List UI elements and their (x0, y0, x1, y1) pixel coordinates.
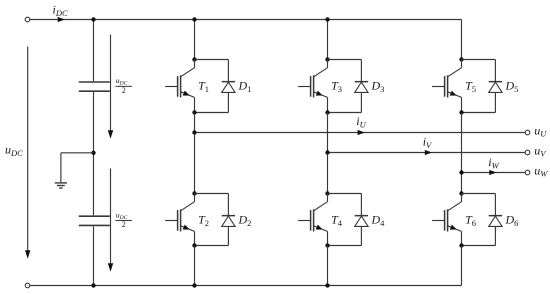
wire leg 3 from top rail (461, 20, 463, 60)
wire leg 1 from top rail (194, 20, 196, 60)
voltage arrow u_DC/2 (C1) (108, 35, 113, 139)
terminal DC+ (top left) (25, 17, 30, 22)
diode D5 (462, 60, 503, 113)
node U (junction leg 1 midpoint) (192, 130, 196, 134)
junction leg 1 upper device collector (192, 57, 196, 61)
junction top rail / leg 2 (325, 17, 329, 21)
transistor T6 (IGBT) (432, 194, 461, 246)
current arrow i_W (489, 170, 496, 175)
junction leg 2 upper device emitter (325, 110, 329, 114)
wire phase U output (195, 132, 526, 134)
wire leg 3 midsection (461, 113, 463, 194)
wire leg 1 midsection (194, 113, 196, 194)
terminal u_W (525, 170, 530, 175)
junction leg 2 lower device collector (325, 191, 329, 195)
diode D4 (328, 194, 369, 246)
junction leg 3 upper device emitter (459, 110, 463, 114)
node W (junction leg 3 midpoint) (459, 170, 463, 174)
junction bottom rail / leg 1 (192, 283, 196, 287)
wire leg 2 midsection (327, 113, 329, 194)
wire top DC rail (30, 19, 462, 21)
capacitor C2 (79, 216, 110, 225)
wire capacitor branch lower (93, 226, 95, 285)
voltage arrow u_DC/2 (C2) (108, 169, 113, 272)
voltage arrow u_DC (25, 47, 30, 259)
junction leg 1 upper device emitter (192, 110, 196, 114)
terminal u_U (525, 130, 530, 135)
svg-text:2: 2 (122, 220, 126, 229)
junction leg 2 upper device collector (325, 57, 329, 61)
label u_DC/2 (C2) (116, 210, 132, 229)
junction bottom rail / capacitor branch (91, 283, 95, 287)
terminal u_V (525, 150, 530, 155)
junction top rail / leg 1 (192, 17, 196, 21)
transistor T1 (IGBT) (165, 60, 194, 113)
junction top rail / capacitor branch (91, 17, 95, 21)
node V (junction leg 2 midpoint) (325, 150, 329, 154)
transistor T3 (IGBT) (298, 60, 327, 113)
diode D2 (195, 194, 236, 246)
diode D6 (462, 194, 503, 246)
wire leg 2 from top rail (327, 20, 329, 60)
junction leg 3 lower device collector (459, 191, 463, 195)
current arrow i_DC (58, 17, 65, 22)
junction leg 3 upper device collector (459, 57, 463, 61)
diode D3 (328, 60, 369, 113)
junction leg 1 lower device emitter (192, 243, 196, 247)
wire bottom DC rail (30, 285, 462, 287)
junction leg 3 lower device emitter (459, 243, 463, 247)
svg-text:2: 2 (122, 86, 126, 95)
wire leg 1 to bottom rail (194, 246, 196, 286)
wire leg 2 to bottom rail (327, 246, 329, 286)
ground (55, 153, 67, 188)
junction leg 2 lower device emitter (325, 243, 329, 247)
transistor T4 (IGBT) (298, 194, 327, 246)
wire phase W output (462, 172, 526, 174)
wire ground tap (61, 152, 94, 154)
label u_DC/2 (C1) (116, 76, 132, 95)
wire capacitor branch middle (93, 92, 95, 215)
junction bottom rail / leg 2 (325, 283, 329, 287)
wire capacitor branch upper (93, 20, 95, 82)
transistor T2 (IGBT) (165, 194, 194, 246)
current arrow i_U (358, 130, 365, 135)
terminal DC- (bottom left) (25, 283, 30, 288)
capacitor C1 (79, 82, 110, 91)
wire phase V output (328, 152, 526, 154)
junction leg 1 lower device collector (192, 191, 196, 195)
transistor T5 (IGBT) (432, 60, 461, 113)
wire leg 3 to bottom rail (461, 246, 463, 286)
diode D1 (195, 60, 236, 113)
junction capacitor branch / ground tap (91, 151, 95, 155)
current arrow i_V (425, 150, 432, 155)
